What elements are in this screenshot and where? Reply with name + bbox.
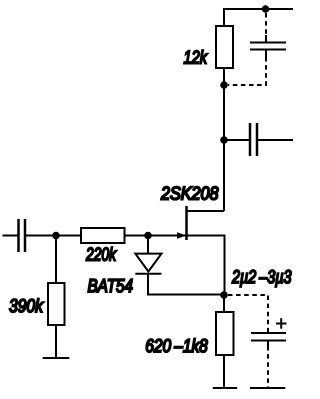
wire: rail corner down to R1 top bbox=[223, 8, 225, 26]
svg-text:220k: 220k bbox=[85, 244, 117, 265]
wire: output junction to C2 bbox=[224, 139, 250, 141]
wire: dashed drop from top node to C1 bbox=[265, 13, 267, 35]
wire: C3 to R2 bbox=[25, 235, 81, 237]
ground (C4) bbox=[250, 387, 285, 389]
wire: drain lead of Q1 bbox=[187, 210, 225, 212]
wire: source node down to R4 bbox=[223, 295, 225, 312]
wire: R3 to ground bbox=[55, 325, 57, 358]
node: output junction on rail bbox=[220, 136, 228, 144]
node C: source node bbox=[220, 291, 228, 299]
wire: R4 to ground bbox=[223, 355, 225, 388]
wire: node A down to R3 bbox=[55, 236, 57, 284]
ground (R4) bbox=[213, 387, 237, 389]
wire: dashed C4 to ground bbox=[267, 346, 269, 388]
wire: top supply rail bbox=[224, 8, 293, 10]
label: C4 polarity + bbox=[276, 318, 287, 329]
wire: dashed link C1 bottom to drain-rail node bbox=[228, 57, 266, 85]
wire: D1 cathode to source node bbox=[148, 274, 224, 295]
wire: dashed link node C to C4 bbox=[228, 295, 268, 328]
diode D1 BAT54 bbox=[135, 254, 161, 274]
node: dashed-cap junction on rail bbox=[220, 81, 228, 89]
capacitor C1 (optional, top right) bbox=[250, 35, 286, 57]
transistor Q1 2SK208 channel bar bbox=[185, 206, 188, 240]
resistor R3 390k bbox=[48, 283, 65, 325]
svg-text:2µ2 –3µ3: 2µ2 –3µ3 bbox=[231, 266, 292, 287]
resistor R2 220k bbox=[81, 228, 125, 243]
ground (R3) bbox=[43, 357, 70, 359]
resistor R4 620-1k8 bbox=[216, 312, 234, 355]
capacitor C3 input coupling bbox=[19, 219, 26, 252]
capacitor C2 output coupling bbox=[250, 123, 257, 156]
node A: bias node bbox=[52, 232, 60, 240]
node: top-right junction bbox=[262, 5, 270, 13]
wire: gate lead with arrow bbox=[148, 232, 186, 239]
svg-text:12k: 12k bbox=[184, 47, 209, 68]
svg-text:390k: 390k bbox=[9, 295, 44, 316]
wire: input stub from left edge bbox=[3, 235, 19, 237]
wire: drain rail R1 bottom down to drain corner bbox=[223, 68, 225, 211]
capacitor C4 electrolytic bbox=[251, 328, 286, 346]
svg-text:BAT54: BAT54 bbox=[88, 275, 134, 296]
svg-text:2SK208: 2SK208 bbox=[160, 183, 219, 204]
wire: C2 to right edge (output) bbox=[257, 139, 293, 141]
node B: gate node bbox=[144, 232, 152, 240]
resistor R1 12k bbox=[216, 26, 233, 68]
wire: node B down to D1 anode bbox=[147, 236, 149, 255]
wire: R2 to gate node bbox=[125, 235, 149, 237]
svg-text:620 –1k8: 620 –1k8 bbox=[145, 335, 208, 356]
wire: source lead of Q1 down to source node bbox=[187, 236, 225, 296]
